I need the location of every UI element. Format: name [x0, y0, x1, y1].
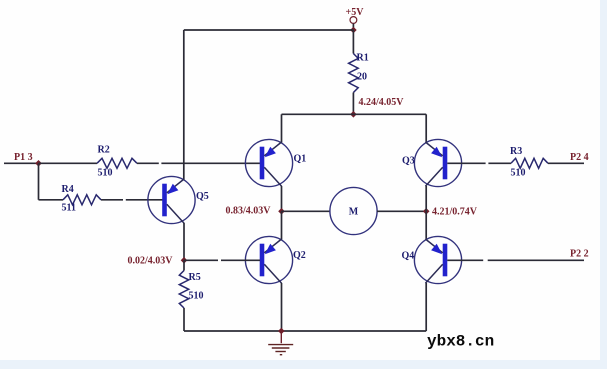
transistor Q5: [148, 176, 195, 223]
svg-text:510: 510: [98, 168, 113, 179]
transistor Q3: [414, 139, 461, 186]
wire Q3 emitter to right motor node: [425, 186, 427, 211]
svg-text:4.24/4.05V: 4.24/4.05V: [359, 97, 405, 108]
svg-text:R4: R4: [62, 184, 74, 195]
wire Q2 emitter to ground rail: [281, 283, 283, 331]
wire 0.02V node to R5: [183, 260, 185, 270]
junction at +5V rail: [350, 27, 357, 34]
transistor Q2: [245, 236, 292, 283]
wire 0.02V node to Q2 base: [184, 259, 218, 261]
svg-text:510: 510: [511, 167, 526, 178]
wire R5 to ground rail: [183, 308, 185, 331]
svg-text:0.02/4.03V: 0.02/4.03V: [128, 255, 174, 266]
ground: [268, 331, 293, 355]
junction at 4.24V node: [350, 111, 357, 118]
wire Q3 base to R3: [447, 162, 485, 164]
svg-text:0.83/4.03V: 0.83/4.03V: [226, 205, 272, 216]
wire node rail left: [282, 113, 354, 115]
svg-text:20: 20: [357, 72, 367, 83]
wire P1.3 node down to R4 row: [38, 163, 40, 200]
wire R4 row left segment: [39, 199, 64, 201]
wire Q1 emitter to motor node: [281, 186, 283, 211]
resistor R2: [97, 158, 137, 168]
wire Q1 collector lead: [281, 114, 283, 142]
svg-text:510: 510: [189, 291, 204, 302]
junction at right motor node: [423, 208, 430, 215]
wire R4 to Q5 base: [101, 199, 123, 201]
wire left drop from top rail to Q5: [183, 30, 185, 180]
wire Q5 emitter down to 0.02V node: [183, 223, 185, 260]
wire node rail right: [353, 113, 426, 115]
resistor R5: [179, 271, 188, 309]
svg-text:Q1: Q1: [294, 153, 307, 164]
wire Q4 emitter to ground rail: [425, 283, 427, 331]
svg-text:511: 511: [62, 203, 76, 214]
wire P1.3 lead-in: [4, 162, 39, 164]
wire Q3 collector lead: [425, 114, 427, 142]
junction at 0.02V node: [181, 257, 188, 264]
wire R2 to Q1 base: [137, 162, 159, 164]
wire motor node to Q2: [281, 211, 283, 239]
svg-text:Q3: Q3: [402, 155, 415, 166]
svg-text:M: M: [349, 206, 359, 217]
svg-text:P2 2: P2 2: [570, 249, 589, 260]
resistor R4: [63, 195, 101, 205]
svg-text:R5: R5: [189, 272, 201, 283]
wire motor left lead: [282, 210, 331, 212]
wire R3 to P2.4: [548, 162, 584, 164]
wire R2 row left segment: [39, 162, 98, 164]
svg-text:P1 3: P1 3: [14, 152, 33, 163]
svg-text:Q4: Q4: [402, 250, 415, 261]
junction at ground rail: [278, 328, 285, 335]
wire R1 to node rail: [352, 93, 354, 115]
svg-text:Q2: Q2: [293, 250, 306, 261]
svg-text:4.21/0.74V: 4.21/0.74V: [432, 206, 478, 217]
wire top rail: [184, 29, 354, 31]
junction at P1.3 node: [35, 160, 42, 167]
svg-text:R3: R3: [510, 146, 522, 157]
svg-text:R1: R1: [357, 53, 369, 64]
transistor Q4: [414, 236, 461, 283]
wire motor right lead: [377, 210, 426, 212]
wire Q4 base to P2.2: [447, 259, 483, 261]
wire +5V rail to R1: [352, 30, 354, 54]
svg-text:Q5: Q5: [196, 191, 209, 202]
junction at left motor node: [278, 208, 285, 215]
motor M: [330, 187, 377, 234]
svg-text:P2 4: P2 4: [570, 152, 589, 163]
resistor R3: [511, 158, 548, 168]
power port +5V: [346, 7, 365, 30]
wire ground rail: [184, 330, 426, 332]
svg-text:R2: R2: [98, 145, 110, 156]
resistor R1: [349, 54, 359, 93]
svg-text:ybx8.cn: ybx8.cn: [427, 333, 494, 351]
transistor Q1: [245, 139, 292, 186]
wire motor node to Q4: [425, 211, 427, 239]
